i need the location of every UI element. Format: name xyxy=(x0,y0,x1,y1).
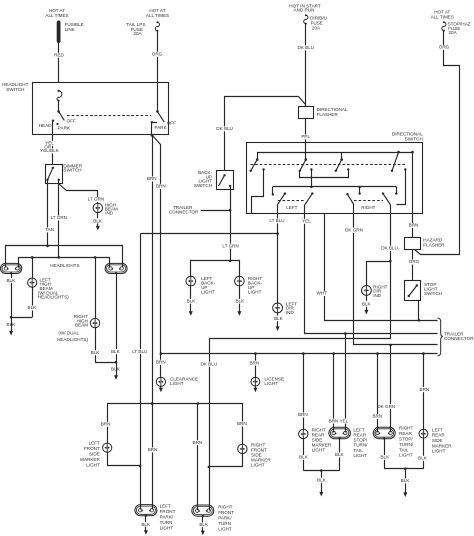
left rear stop/turn/tail light xyxy=(329,427,368,458)
svg-text:FLASHER: FLASHER xyxy=(317,112,339,117)
svg-text:ALL TIMES: ALL TIMES xyxy=(45,13,68,18)
trailer connector stub xyxy=(169,205,230,215)
left high beam lamp xyxy=(28,257,70,299)
ground rear right group xyxy=(401,469,411,497)
svg-text:LIGHT: LIGHT xyxy=(399,453,413,458)
left back-up light xyxy=(186,276,216,295)
svg-text:SWITCH: SWITCH xyxy=(194,183,212,188)
svg-text:BRN: BRN xyxy=(156,184,166,189)
svg-text:SWITCH: SWITCH xyxy=(6,87,24,92)
right high beam lamp xyxy=(57,257,100,342)
svg-text:LIGHT: LIGHT xyxy=(170,381,184,386)
svg-text:BEAM: BEAM xyxy=(75,323,88,328)
wire BLK left rear stop light ground xyxy=(335,437,345,470)
svg-text:ALL TIMES: ALL TIMES xyxy=(146,13,169,18)
right front side marker lamp xyxy=(237,421,271,468)
svg-text:LIGHT: LIGHT xyxy=(248,290,262,295)
svg-text:LINK: LINK xyxy=(65,27,76,32)
svg-text:MARKER: MARKER xyxy=(432,443,452,448)
wire BRN right rear stop light feed xyxy=(372,354,382,433)
wire BLK left high beam to ground junction xyxy=(11,287,37,317)
svg-text:BRN: BRN xyxy=(298,412,308,417)
wire YEL left rear turn xyxy=(302,205,438,335)
svg-text:SWITCH: SWITCH xyxy=(405,137,423,142)
dir switch lower blade DK GRN xyxy=(346,193,383,210)
right headlight sealed beam xyxy=(105,263,127,273)
svg-text:LEFT: LEFT xyxy=(432,427,443,432)
dir switch link wire right xyxy=(397,170,406,205)
wire ORG stop fuse to hazard flasher and stop light switch xyxy=(415,31,460,255)
ground clearance light xyxy=(159,386,163,392)
ground left back-up light xyxy=(187,286,197,316)
svg-text:20A: 20A xyxy=(312,26,321,31)
svg-text:FRONT: FRONT xyxy=(218,510,234,515)
svg-text:BRN: BRN xyxy=(249,360,259,365)
dir switch lower blade DK BLU xyxy=(382,192,391,204)
svg-text:PARK/: PARK/ xyxy=(218,515,232,520)
svg-text:LT GRN: LT GRN xyxy=(88,197,104,202)
svg-text:DK BLU: DK BLU xyxy=(216,126,233,131)
stop light switch box xyxy=(405,281,443,301)
svg-text:WHT: WHT xyxy=(316,291,327,296)
high beam indicator lamp xyxy=(93,202,118,215)
svg-text:LT BLU: LT BLU xyxy=(132,349,147,354)
svg-text:TAN: TAN xyxy=(45,227,54,232)
svg-text:OFF: OFF xyxy=(167,120,176,125)
svg-text:BLK: BLK xyxy=(141,522,151,527)
license light feed xyxy=(249,354,259,378)
wire BLK right rear stop light ground xyxy=(380,437,423,470)
ground right dir indicator xyxy=(362,295,372,314)
dir switch mid rail xyxy=(272,170,398,196)
svg-text:BRN: BRN xyxy=(372,414,382,419)
mechanical link dashed line xyxy=(67,115,151,117)
left front park/turn light xyxy=(135,504,176,531)
svg-text:REAR: REAR xyxy=(399,431,412,436)
svg-text:ORG: ORG xyxy=(152,51,163,56)
fuse STOP/HAZ 20A xyxy=(442,21,471,35)
left dir indicator lamp xyxy=(273,301,298,315)
left dir indicator feed xyxy=(277,234,279,303)
svg-text:LIGHT: LIGHT xyxy=(201,290,215,295)
wire TAN low beam xyxy=(45,180,54,246)
svg-text:(W/ DUAL: (W/ DUAL xyxy=(58,331,79,336)
svg-text:HEADLIGHTS): HEADLIGHTS) xyxy=(57,337,88,342)
wire BLK right rear side marker ground path xyxy=(299,439,340,472)
wire DK BLU branch to back-up light switch xyxy=(216,97,305,171)
svg-text:SIDE: SIDE xyxy=(89,452,100,457)
svg-text:CONNECTOR: CONNECTOR xyxy=(169,209,199,214)
svg-text:BLK: BLK xyxy=(335,452,345,457)
directional switch box xyxy=(247,132,424,214)
dir switch lower blade YEL xyxy=(305,192,313,204)
svg-text:ORG: ORG xyxy=(439,45,450,50)
svg-text:BRN: BRN xyxy=(329,418,339,423)
svg-text:SWITCH: SWITCH xyxy=(63,168,81,173)
svg-text:BLK: BLK xyxy=(199,522,209,527)
ground left front park/turn xyxy=(141,515,151,535)
svg-text:LIGHT: LIGHT xyxy=(353,453,367,458)
svg-text:MARKER: MARKER xyxy=(80,457,100,462)
wire BRN park to front bus xyxy=(147,135,157,509)
svg-text:PPL: PPL xyxy=(301,134,310,139)
svg-text:LIGHT: LIGHT xyxy=(264,381,278,386)
fusible link xyxy=(57,21,84,44)
svg-text:DK BLU: DK BLU xyxy=(381,245,398,250)
dir switch lower blade LT BLU xyxy=(278,192,304,210)
wire YEL left rear stop light turn feed xyxy=(339,334,348,433)
tail lamps fuse supply label xyxy=(146,8,169,18)
dir switch blade 2 (PPL pivot) xyxy=(299,143,308,172)
wire ORG hazard flasher to stop light switch xyxy=(409,250,420,280)
svg-text:IND: IND xyxy=(286,310,295,315)
svg-text:20A: 20A xyxy=(449,30,458,35)
svg-text:HEADLIGHTS: HEADLIGHTS xyxy=(50,263,79,268)
svg-text:HEAD: HEAD xyxy=(39,123,52,128)
svg-text:DK GRN: DK GRN xyxy=(377,404,395,409)
svg-text:YEL: YEL xyxy=(302,219,311,224)
trailer connector bracket xyxy=(438,318,474,356)
contact HEAD xyxy=(39,120,54,129)
right rear stop/turn/tail light xyxy=(373,426,414,458)
svg-text:LEFT: LEFT xyxy=(286,205,297,210)
svg-text:STOP/: STOP/ xyxy=(399,437,413,442)
dir switch blade 4 xyxy=(391,151,400,172)
svg-text:BRN: BRN xyxy=(420,387,430,392)
headlight switch box xyxy=(2,82,168,135)
wire BLK left headlight ground xyxy=(6,272,16,318)
left front side marker lamp xyxy=(80,422,112,468)
directional switch dashed cam line xyxy=(251,164,408,166)
ground left dir indicator xyxy=(274,313,284,331)
wire BRN right rear side marker feed xyxy=(298,354,308,430)
wire YEL OR YEL/BLK headlight switch to dimmer switch xyxy=(40,121,60,165)
wire BRN tail bus to trailer connector xyxy=(160,352,438,355)
directional switch top rail xyxy=(256,151,414,161)
svg-text:BRN: BRN xyxy=(156,360,166,365)
svg-text:BLK: BLK xyxy=(28,305,38,310)
wire LT GRN back-up switch to back-up lights xyxy=(222,186,239,262)
ground license light xyxy=(253,386,257,392)
svg-text:HEADLIGHTS): HEADLIGHTS) xyxy=(38,295,69,300)
svg-text:IND: IND xyxy=(373,293,382,298)
svg-text:PARK: PARK xyxy=(155,125,168,130)
clearance light lamp xyxy=(156,377,198,387)
back-up light switch box xyxy=(194,170,234,189)
svg-text:DK BLU: DK BLU xyxy=(297,45,314,50)
svg-text:YEL: YEL xyxy=(339,418,348,423)
directional flasher xyxy=(299,107,348,119)
ground high beam indicator xyxy=(93,213,103,231)
hazard flasher xyxy=(405,237,446,249)
svg-text:BRN: BRN xyxy=(193,440,203,445)
wire back-up light feed split xyxy=(191,261,240,277)
svg-text:OFF: OFF xyxy=(67,119,76,124)
dir switch link wire left xyxy=(252,170,264,214)
svg-text:BRN: BRN xyxy=(237,421,247,426)
svg-text:TAIL: TAIL xyxy=(399,447,409,452)
wire ORG tail fuse to headlight switch xyxy=(152,31,163,83)
dir/backup fuse supply label xyxy=(289,3,321,12)
svg-text:BRN: BRN xyxy=(409,223,419,228)
clearance light feed xyxy=(156,354,166,378)
headlight switch right blade (OFF position) xyxy=(156,83,176,125)
ground left headlights xyxy=(6,317,16,335)
wire DK BLU fuse to directional flasher xyxy=(297,24,314,107)
ground rear left group xyxy=(317,471,327,497)
wire BRN hazard feed from directional switch xyxy=(409,152,419,237)
svg-text:RED: RED xyxy=(54,53,64,58)
svg-text:PARK/: PARK/ xyxy=(160,515,174,520)
svg-text:SWITCH: SWITCH xyxy=(424,291,442,296)
back-up switch blade xyxy=(219,174,232,187)
svg-text:TURN: TURN xyxy=(218,521,231,526)
wire left front side marker to turn wire xyxy=(107,452,141,467)
wire LT GRN high beam xyxy=(51,180,68,258)
svg-text:BLK: BLK xyxy=(274,316,284,321)
dir switch link wire center xyxy=(300,170,349,178)
svg-text:BLK: BLK xyxy=(111,367,121,372)
svg-text:BLK: BLK xyxy=(299,455,309,460)
svg-text:TURN: TURN xyxy=(160,520,173,525)
svg-text:BLK: BLK xyxy=(6,278,16,283)
svg-text:FUSE: FUSE xyxy=(311,20,323,25)
fuse DIR/B/U 20A xyxy=(304,14,327,31)
wire right front side marker to turn wire xyxy=(208,454,243,469)
svg-text:BLK: BLK xyxy=(362,301,372,306)
wire LT GRN high beam bus xyxy=(19,256,110,267)
wire BRN front marker bus xyxy=(108,402,243,444)
ground right back-up light xyxy=(235,286,245,316)
wire park output to junction xyxy=(151,122,154,136)
right dir indicator lamp xyxy=(362,284,388,298)
svg-text:BRN: BRN xyxy=(147,176,157,181)
svg-text:LIGHT: LIGHT xyxy=(218,526,232,531)
svg-text:LEFT: LEFT xyxy=(89,441,100,446)
dimmer switch box xyxy=(46,164,83,184)
wire BRN left rear stop light feed xyxy=(329,354,339,433)
svg-text:BLK: BLK xyxy=(418,456,428,461)
svg-text:SIDE: SIDE xyxy=(432,438,443,443)
svg-text:ALL TIMES: ALL TIMES xyxy=(431,14,454,19)
fuse TAIL LPS 20A xyxy=(126,21,159,36)
left rear side marker lamp xyxy=(419,427,452,453)
svg-text:YEL/BLK: YEL/BLK xyxy=(40,148,60,153)
dir switch blade 3 xyxy=(335,152,343,172)
license light lamp xyxy=(251,376,284,386)
right rear side marker lamp xyxy=(299,427,332,452)
circuit breaker in headlight switch xyxy=(57,90,62,112)
left headlight sealed beam xyxy=(1,263,80,273)
wire stop switch output xyxy=(418,301,420,321)
svg-text:AND RUN: AND RUN xyxy=(294,8,315,13)
wire DK GRN right rear turn xyxy=(345,205,437,347)
svg-text:FRONT: FRONT xyxy=(160,509,176,514)
svg-text:BLK: BLK xyxy=(111,349,121,354)
svg-text:BLK: BLK xyxy=(317,477,327,482)
svg-text:BLK: BLK xyxy=(235,299,245,304)
wire BRN left rear side marker feed xyxy=(420,354,430,430)
svg-text:20A: 20A xyxy=(133,31,142,36)
dimmer blade xyxy=(46,167,60,181)
svg-text:LT GRN: LT GRN xyxy=(51,215,67,220)
svg-text:FRONT: FRONT xyxy=(84,446,100,451)
wire WHT brake feed xyxy=(316,214,437,322)
svg-text:LT BLU: LT BLU xyxy=(269,218,284,223)
wire BLK right high beam to ground junction xyxy=(91,328,117,363)
dir switch contact dots row xyxy=(262,168,406,170)
wire BRN left front park feed label xyxy=(148,447,158,452)
wire TAN low beam bus xyxy=(6,245,123,268)
right back-up light xyxy=(235,276,263,295)
svg-text:PARK: PARK xyxy=(58,125,71,130)
contact PARK left xyxy=(56,123,71,130)
svg-text:LIGHT: LIGHT xyxy=(432,449,446,454)
right dir indicator feed xyxy=(367,262,391,286)
svg-text:BLK: BLK xyxy=(401,478,411,483)
svg-text:LEFT: LEFT xyxy=(160,504,171,509)
svg-text:TURN/: TURN/ xyxy=(399,442,414,447)
ground right headlights xyxy=(111,362,121,380)
svg-text:DK BLU: DK BLU xyxy=(200,361,217,366)
svg-text:BLK: BLK xyxy=(187,299,197,304)
right front park/turn light xyxy=(192,504,234,531)
svg-text:LIGHT: LIGHT xyxy=(160,526,174,531)
svg-text:DK GRN: DK GRN xyxy=(345,227,363,232)
wire LT BLU left front turn xyxy=(132,205,286,510)
svg-text:LIGHT: LIGHT xyxy=(312,447,326,452)
svg-text:BRN: BRN xyxy=(148,447,158,452)
headlight switch left blade (OFF position) xyxy=(57,110,76,124)
svg-text:LIGHT: LIGHT xyxy=(86,462,100,467)
svg-text:RIGHT: RIGHT xyxy=(218,504,232,509)
svg-text:BLK: BLK xyxy=(93,218,103,223)
svg-text:IND: IND xyxy=(105,211,114,216)
svg-text:RIGHT: RIGHT xyxy=(361,205,375,210)
svg-text:ORG: ORG xyxy=(409,259,420,264)
fusible link supply label xyxy=(45,8,68,18)
wire BRN park to tail circuit xyxy=(153,136,166,354)
svg-text:BLK: BLK xyxy=(380,455,390,460)
wire BLK right headlight ground xyxy=(111,272,121,363)
svg-text:BLK: BLK xyxy=(91,350,101,355)
svg-text:FLASHER: FLASHER xyxy=(423,242,445,247)
wire DK BLU right front turn xyxy=(200,205,397,511)
wire RED fusible link to headlight switch xyxy=(54,43,64,83)
stop light switch blade xyxy=(408,284,418,297)
ground right front park/turn xyxy=(199,515,209,535)
contact PARK right xyxy=(151,121,168,130)
svg-text:CONNECTOR: CONNECTOR xyxy=(444,336,474,341)
svg-text:LIGHT: LIGHT xyxy=(251,463,265,468)
wire LT GRN to high beam indicator xyxy=(59,184,105,204)
wire BLK left rear side marker ground path xyxy=(418,438,428,469)
svg-text:LT GRN: LT GRN xyxy=(222,243,238,248)
wire PPL flasher to directional switch xyxy=(301,119,310,143)
svg-text:REAR: REAR xyxy=(432,433,445,438)
svg-text:BRN: BRN xyxy=(101,422,111,427)
svg-text:RIGHT: RIGHT xyxy=(399,426,413,431)
wire BRN right front park feed xyxy=(193,404,203,511)
dir switch blade 1 xyxy=(250,160,258,172)
stop/hazard fuse supply label xyxy=(431,10,454,20)
wire DK GRN right rear stop light turn feed xyxy=(377,345,395,432)
